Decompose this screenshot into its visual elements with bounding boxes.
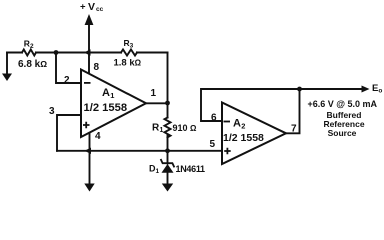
node junction dot zener net [165,148,170,153]
op-amp A2 minus sign [224,121,231,123]
wire Eo output [300,88,364,90]
resistor R2 [22,50,36,56]
node junction dot A2 output/feedback [297,87,302,92]
power +Vcc arrowhead [85,14,94,25]
op-amp A2 plus sign [224,148,231,155]
svg-text:8: 8 [94,62,100,73]
arrowhead Eo [362,86,370,93]
wire left terminal drop [6,53,8,75]
svg-text:cc: cc [96,6,104,13]
node junction dot A1 output [165,101,170,106]
svg-text:1.8 kΩ: 1.8 kΩ [114,58,142,69]
op-amp U2 A2 triangle [222,103,286,165]
node crossover blob pin4/bottom net [85,148,92,154]
svg-text:+6.6 V @ 5.0 mA: +6.6 V @ 5.0 mA [308,99,378,109]
wire Vcc vertical [88,22,90,74]
diode D1 anode triangle [162,164,174,173]
wire right vertical upper [167,53,169,118]
svg-text:1: 1 [151,88,157,99]
wire A2 feedback loop [201,89,300,121]
svg-text:3: 3 [49,106,55,117]
svg-text:V: V [88,1,95,13]
diode D1 lead top [167,151,169,164]
svg-text:7: 7 [291,124,297,135]
wire rail left segment [7,52,22,54]
wire bottom net [57,150,222,152]
wire pin2 branch [56,53,81,84]
svg-text:2: 2 [64,75,70,86]
svg-text:5: 5 [210,139,216,150]
node junction dot rail/pin2 [54,50,59,55]
resistor R1 [165,118,171,138]
node crossover blob Vcc/rail [84,49,91,55]
wire pin4 drop [89,133,91,184]
op-amp A1 minus sign [84,82,91,84]
svg-text:+: + [80,2,86,13]
op-amp A1 plus sign [83,122,90,129]
wire A2 output [286,89,300,133]
svg-text:Source: Source [328,128,357,138]
svg-text:1N4611: 1N4611 [176,164,206,174]
svg-text:4: 4 [95,131,101,142]
svg-text:6: 6 [211,113,217,124]
wire pin3 loop [57,115,81,151]
wire A1 output [146,102,168,104]
svg-text:1/2 1558: 1/2 1558 [84,102,128,114]
ground below D1 arrow [162,184,173,192]
svg-text:910 Ω: 910 Ω [173,123,198,133]
op-amp U1 A1 triangle [81,70,146,138]
ground left arrow [2,74,12,82]
wire rail R2 to R3 [36,52,121,54]
wire rail R3 to right corner [137,52,168,54]
svg-text:1/2 1558: 1/2 1558 [223,132,264,144]
ground below pin4 arrow [84,184,94,192]
resistor R3 [121,50,137,56]
diode D1 lead bottom [167,173,169,185]
diode D1 zener bar [161,160,174,167]
svg-text:6.8 kΩ: 6.8 kΩ [18,59,47,70]
wire R1 to bottom net [167,135,169,151]
